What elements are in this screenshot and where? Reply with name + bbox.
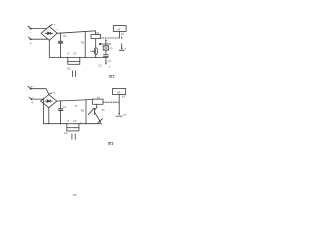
resistor R1' branch bbox=[85, 100, 87, 124]
svg-text:АТ: АТ bbox=[117, 27, 121, 31]
stem from box 2 bbox=[118, 95, 120, 103]
terminal a2 bbox=[28, 86, 31, 89]
plus polarity label 2 bbox=[49, 93, 52, 95]
capacitor C1 branch bbox=[58, 33, 62, 57]
wire lead b to bridge bbox=[31, 38, 48, 40]
svg-text:+7: +7 bbox=[66, 119, 70, 123]
wire junctions circuit 2 bbox=[43, 99, 86, 125]
dashed mechanical link 2 bbox=[103, 101, 119, 103]
svg-text:С2: С2 bbox=[73, 119, 77, 123]
stem from box bbox=[119, 31, 121, 38]
svg-text:~: ~ bbox=[30, 30, 32, 34]
wire bottom rail 2 bbox=[44, 123, 102, 125]
svg-text:105: 105 bbox=[73, 193, 77, 198]
svg-text:47: 47 bbox=[75, 106, 78, 108]
capacitor marks below loop bbox=[72, 71, 75, 77]
svg-text:С2: С2 bbox=[73, 52, 77, 56]
svg-text:2П: 2П bbox=[110, 48, 113, 50]
wire left drop to bottom rail bbox=[43, 98, 45, 124]
resistor loop 2 below rail bbox=[67, 124, 79, 131]
svg-text:б: б bbox=[30, 42, 32, 46]
box EM1 (top right) bbox=[113, 26, 126, 32]
svg-text:~: ~ bbox=[32, 95, 34, 99]
dashed mechanical link bbox=[100, 37, 120, 39]
diode inside bridge bbox=[45, 32, 52, 34]
svg-text:ПГЗ: ПГЗ bbox=[108, 142, 114, 147]
svg-text:С1: С1 bbox=[63, 105, 67, 109]
svg-text:+: + bbox=[53, 91, 55, 95]
wire top rail bbox=[57, 31, 95, 35]
wire top rail 2 bbox=[57, 100, 93, 102]
svg-text:+7: +7 bbox=[67, 52, 71, 56]
bridge rectifier VD1 (diamond) bbox=[41, 26, 57, 40]
electromagnet arrow 2 bbox=[116, 102, 122, 116]
wire bridge minus drop bbox=[48, 40, 50, 57]
svg-text:Рэ: Рэ bbox=[102, 109, 106, 112]
svg-text:К2: К2 bbox=[121, 33, 124, 36]
relay coil K1' bbox=[93, 99, 104, 104]
svg-text:и: и bbox=[109, 65, 111, 68]
electromagnet arrow bbox=[119, 37, 124, 51]
capacitor C3 bbox=[103, 50, 108, 56]
wire bottom rail bbox=[49, 56, 108, 58]
plus polarity label bbox=[50, 25, 53, 27]
armature bar and arrow bbox=[100, 39, 111, 45]
capacitor C1' branch bbox=[58, 101, 62, 124]
wire bridge2 minus drop bbox=[48, 108, 50, 124]
bridge rectifier VD2 (diamond) bbox=[41, 95, 57, 108]
svg-text:б: б bbox=[32, 101, 34, 105]
svg-text:ПГ2: ПГ2 bbox=[109, 75, 114, 80]
svg-text:+: + bbox=[54, 23, 56, 27]
wire base lead bbox=[92, 50, 94, 52]
relay coil K1 bbox=[91, 35, 101, 39]
svg-text:+: + bbox=[57, 27, 59, 31]
resistor R1 branch bbox=[84, 32, 86, 58]
wire lead a2 bbox=[31, 89, 49, 95]
box EM2 (top right) bbox=[113, 89, 126, 95]
svg-text:С1: С1 bbox=[63, 34, 67, 38]
terminal b2 bbox=[29, 97, 32, 100]
wire lead b2 bbox=[32, 98, 44, 100]
svg-text:К2: К2 bbox=[122, 95, 125, 98]
svg-text:С3: С3 bbox=[98, 65, 102, 68]
svg-text:а~: а~ bbox=[30, 84, 34, 88]
wire junctions circuit 1 bbox=[60, 31, 96, 58]
svg-text:АТ: АТ bbox=[117, 91, 121, 95]
diode inside bridge 2 bbox=[45, 100, 52, 102]
svg-text:R1: R1 bbox=[81, 108, 85, 112]
svg-text:С3: С3 bbox=[108, 60, 112, 63]
svg-text:л: л bbox=[90, 50, 92, 53]
transistor VT1' bbox=[88, 104, 102, 123]
svg-text:и: и bbox=[125, 48, 127, 51]
svg-text:С2: С2 bbox=[67, 67, 71, 71]
terminal a (input ~) bbox=[28, 26, 31, 29]
arrow below rail bbox=[105, 57, 107, 65]
resistor R2 loop below rail bbox=[68, 57, 80, 64]
svg-text:R1: R1 bbox=[81, 41, 85, 45]
svg-text:и2: и2 bbox=[123, 114, 126, 117]
terminal b (input ~) bbox=[28, 37, 31, 40]
svg-text:С2: С2 bbox=[64, 131, 68, 135]
contact box K1.1 bbox=[103, 44, 108, 50]
wire lead a to bridge bbox=[31, 28, 47, 30]
transistor VT1 bbox=[94, 39, 97, 58]
capacitor marks below loop 2 bbox=[72, 134, 75, 139]
